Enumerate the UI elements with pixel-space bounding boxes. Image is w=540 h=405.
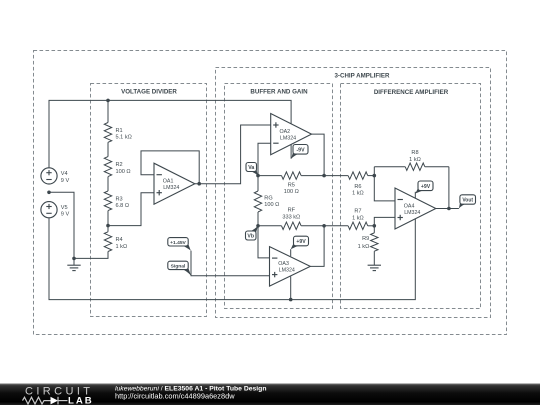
resistor RG (257, 176, 259, 191)
resistor R8 (374, 166, 405, 168)
wire R3-R4 tap to OA1 + input (108, 193, 154, 226)
svg-text:R5: R5 (288, 182, 295, 188)
net flag Va (250, 168, 259, 176)
svg-text:R7: R7 (354, 208, 361, 214)
net flag Vb (249, 226, 258, 235)
wire R7 junction to OA4 + input (374, 217, 395, 225)
wire OA4 output (436, 208, 459, 210)
ground right (368, 264, 381, 266)
op-amp OA3 (270, 247, 311, 287)
resistor R4 (104, 232, 111, 252)
op-amp OA4 (395, 188, 436, 229)
node R7-R9 (373, 224, 377, 228)
svg-text:Signal: Signal (171, 263, 186, 269)
ground left (67, 264, 80, 266)
svg-text:OA1: OA1 (163, 179, 174, 185)
resistor R5 (258, 175, 282, 177)
node V4-V5 midpoint (47, 191, 51, 195)
svg-text:9 V: 9 V (61, 178, 70, 184)
svg-text:R2: R2 (116, 162, 123, 168)
svg-text:VOLTAGE DIVIDER: VOLTAGE DIVIDER (121, 88, 177, 95)
net flag +9V OA4 (415, 187, 425, 193)
svg-text:100 Ω: 100 Ω (116, 169, 131, 175)
resistor R7 (324, 225, 348, 227)
svg-text:Va: Va (248, 165, 254, 171)
wire signal input to OA3 + input (191, 251, 270, 276)
svg-text:3-CHIP AMPLIFIER: 3-CHIP AMPLIFIER (334, 72, 390, 79)
svg-text:333 kΩ: 333 kΩ (282, 215, 300, 221)
resistor R3 (104, 191, 111, 211)
net flag +9V OA3 (291, 242, 301, 249)
svg-text:100 Ω: 100 Ω (284, 189, 299, 195)
svg-text:R8: R8 (411, 150, 418, 156)
net flag Vout (459, 201, 467, 209)
resistor R1 (104, 123, 111, 143)
svg-text:Vout: Vout (462, 198, 473, 204)
svg-text:BUFFER AND GAIN: BUFFER AND GAIN (250, 88, 308, 95)
svg-text:6.8 Ω: 6.8 Ω (116, 203, 130, 209)
node ground left (72, 257, 76, 261)
svg-text:RG: RG (264, 195, 272, 201)
node OA2 output (322, 174, 326, 178)
svg-text:Vb: Vb (247, 234, 254, 240)
wire OA2 output drop (312, 134, 325, 176)
svg-text:+1.45V: +1.45V (170, 240, 186, 246)
svg-text:R1: R1 (116, 128, 123, 134)
svg-text:DIFFERENCE AMPLIFIER: DIFFERENCE AMPLIFIER (374, 89, 449, 96)
svg-text:R4: R4 (116, 237, 123, 243)
wire OA2 - input to node Va (258, 143, 271, 175)
resistor R9 (373, 226, 375, 233)
svg-text:1 kΩ: 1 kΩ (116, 244, 128, 250)
node +9V rail / R1 (106, 99, 110, 103)
resistor R2 (104, 157, 111, 177)
net flag -9V OA2 (291, 151, 300, 159)
svg-text:V4: V4 (61, 171, 68, 177)
node R3-R4 tap (106, 224, 110, 228)
svg-text:-9V: -9V (296, 147, 305, 153)
svg-text:LM324: LM324 (280, 135, 296, 141)
wire +9V top rail (49, 100, 291, 167)
node OA4 output (447, 207, 451, 211)
svg-text:LM324: LM324 (163, 185, 179, 191)
node R6-R8 (373, 174, 377, 178)
wire OA1 feedback loop (141, 151, 199, 184)
svg-text:1 kΩ: 1 kΩ (352, 191, 364, 197)
svg-text:LM324: LM324 (404, 210, 420, 216)
resistor RF (258, 225, 282, 227)
wire R8 right drop (448, 167, 450, 209)
svg-text:OA3: OA3 (278, 261, 289, 267)
resistor R6 (324, 175, 348, 177)
svg-text:LM324: LM324 (279, 268, 295, 274)
wire OA1 output to OA2 + input (195, 125, 271, 184)
wire R column leads (107, 100, 109, 122)
node OA3 V- rail (289, 298, 293, 302)
wire R4 bottom to ground node (74, 252, 108, 259)
svg-text:OA4: OA4 (404, 203, 415, 209)
svg-text:+9V: +9V (421, 184, 431, 190)
svg-text:OA2: OA2 (280, 129, 291, 135)
svg-text:1 kΩ: 1 kΩ (352, 215, 364, 221)
svg-text:R9: R9 (362, 236, 369, 242)
wire R6 junction to OA4 - input (374, 167, 395, 201)
wire OA3 output rise (310, 226, 324, 267)
op-amp OA1 (154, 163, 195, 204)
3-chip amplifier box (216, 68, 491, 318)
net flag Signal (181, 266, 191, 276)
voltage source V5 (41, 202, 57, 218)
net flag +1.45V (181, 243, 191, 251)
svg-text:1 kΩ: 1 kΩ (358, 244, 370, 250)
footer bar (0, 384, 540, 405)
svg-text:1 kΩ: 1 kΩ (409, 157, 421, 163)
wire OA3 V+ stub (290, 249, 292, 256)
wire OA2 V- stub (290, 145, 292, 159)
node Vb (256, 224, 260, 228)
svg-text:5.1 kΩ: 5.1 kΩ (116, 135, 132, 141)
wire V5 to -9V bottom rail (49, 218, 415, 300)
svg-text:100 Ω: 100 Ω (264, 202, 279, 208)
outer dashed box (34, 51, 507, 335)
wire V4-V5 midpoint to ground (49, 192, 74, 265)
voltage divider box (91, 84, 207, 317)
svg-text:9 V: 9 V (61, 212, 70, 218)
wire OA3 V- to rail (290, 276, 292, 299)
difference amplifier box (341, 84, 481, 309)
op-amp OA2 (271, 114, 312, 155)
svg-text:LAB: LAB (68, 396, 94, 405)
svg-text:V5: V5 (61, 205, 68, 211)
buffer and gain box (225, 84, 333, 309)
node OA1 output (197, 182, 201, 186)
node Va (256, 174, 260, 178)
wire node Vb to OA3 - input (258, 226, 270, 258)
svg-text:+9V: +9V (296, 239, 306, 245)
voltage source V4 (41, 168, 57, 184)
svg-text:RF: RF (288, 208, 296, 214)
svg-text:R3: R3 (116, 196, 123, 202)
svg-text:R6: R6 (354, 184, 361, 190)
svg-text:http://circuitlab.com/c44899a6: http://circuitlab.com/c44899a6ez8dw (115, 392, 235, 401)
node OA3 output (322, 224, 326, 228)
wire OA4 V+ stub (414, 192, 416, 199)
